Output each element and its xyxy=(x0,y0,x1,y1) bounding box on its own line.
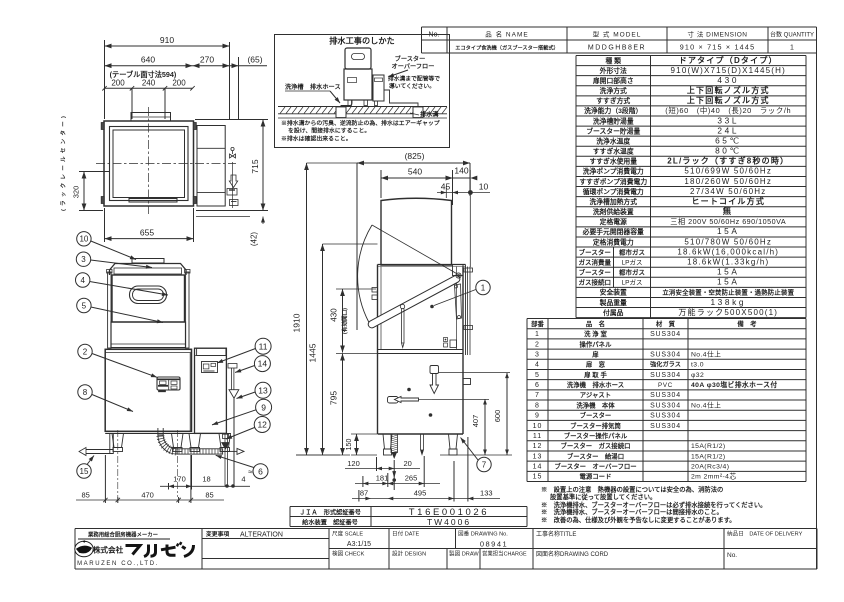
svg-text:定格電源: 定格電源 xyxy=(600,217,627,226)
svg-text:7: 7 xyxy=(535,392,540,399)
svg-text:を設け、間接排水にすること。: を設け、間接排水にすること。 xyxy=(288,127,370,135)
svg-text:電源コード: 電源コード xyxy=(580,472,612,481)
dim 120 20 xyxy=(345,457,420,490)
svg-text:18.6kW(1.33kg/h): 18.6kW(1.33kg/h) xyxy=(687,257,769,266)
svg-text:検図 CHECK: 検図 CHECK xyxy=(332,550,365,558)
plan view outline xyxy=(104,121,194,206)
side view spindle rod xyxy=(402,309,405,348)
svg-text:715: 715 xyxy=(250,159,260,173)
svg-text:扉 取 手: 扉 取 手 xyxy=(584,370,607,379)
svg-text:寸 法 DIMENSION: 寸 法 DIMENSION xyxy=(688,30,748,39)
svg-text:導いてください。: 導いてください。 xyxy=(389,82,435,90)
balloon 10 xyxy=(77,232,136,260)
svg-text:SUS304: SUS304 xyxy=(650,392,681,399)
svg-text:120: 120 xyxy=(347,459,360,468)
JIA certification number box xyxy=(290,507,527,528)
svg-text:15A(R1/2): 15A(R1/2) xyxy=(691,453,726,460)
svg-text:外形寸法: 外形寸法 xyxy=(600,66,627,75)
side view rear duct xyxy=(463,267,473,385)
svg-text:270: 270 xyxy=(200,55,214,65)
svg-text:万能ラック500X500(1): 万能ラック500X500(1) xyxy=(678,307,778,317)
svg-text:(短)60 (中)40 (長)20 ラック/h: (短)60 (中)40 (長)20 ラック/h xyxy=(665,106,791,115)
svg-text:540: 540 xyxy=(408,167,422,177)
drain box floor hatch xyxy=(278,107,447,119)
svg-text:すすぎポンプ消費電力: すすぎポンプ消費電力 xyxy=(579,177,647,186)
plan view corner hinges xyxy=(101,123,196,204)
svg-text:MDDGHB8ER: MDDGHB8ER xyxy=(588,45,646,52)
svg-text:洗浄機 排水ホース: 洗浄機 排水ホース xyxy=(567,380,624,389)
svg-text:33L: 33L xyxy=(717,115,739,125)
front view drain hose corrugated xyxy=(177,448,244,454)
balloon 14 xyxy=(235,356,270,373)
svg-text:洗浄槽: 洗浄槽 xyxy=(285,83,304,91)
drain box mini dishwasher xyxy=(344,48,384,106)
maker logo Maruzen xyxy=(75,531,194,568)
svg-text:ガス接続口: ガス接続口 xyxy=(579,278,612,287)
svg-text:扉: 扉 xyxy=(592,349,599,358)
svg-text:15A: 15A xyxy=(717,226,740,236)
front view body xyxy=(105,349,226,433)
dim 600 xyxy=(296,373,512,455)
svg-text:No.4仕上: No.4仕上 xyxy=(691,349,721,358)
dim 715 xyxy=(195,120,268,211)
svg-text:付属品: 付属品 xyxy=(603,308,624,317)
svg-text:4: 4 xyxy=(241,475,245,484)
front view hood xyxy=(110,264,187,323)
plan view centerlines xyxy=(96,163,236,165)
svg-text:407: 407 xyxy=(471,415,480,428)
dim 87 495 133 xyxy=(352,437,500,502)
svg-text:尺度 SCALE: 尺度 SCALE xyxy=(332,530,363,538)
svg-text:種 類: 種 類 xyxy=(606,56,622,65)
dim 540 140 xyxy=(381,166,477,268)
svg-text:ブースター 給湯口: ブースター 給湯口 xyxy=(567,451,624,460)
side view pivot block xyxy=(453,265,464,320)
svg-text:無: 無 xyxy=(723,206,734,216)
svg-text:TW4006: TW4006 xyxy=(427,517,471,527)
svg-text:1: 1 xyxy=(535,331,540,338)
svg-text:15A(R1/2): 15A(R1/2) xyxy=(691,443,726,450)
front view booster panel xyxy=(202,362,218,373)
side view marker dots xyxy=(407,388,411,392)
svg-text:150: 150 xyxy=(346,439,353,451)
svg-text:10: 10 xyxy=(79,235,88,244)
front view booster xyxy=(195,348,227,433)
svg-text:2m 2mm²-4芯: 2m 2mm²-4芯 xyxy=(691,472,737,481)
svg-text:洗浄能力（3段階）: 洗浄能力（3段階） xyxy=(584,106,642,115)
svg-text:製品重量: 製品重量 xyxy=(599,298,627,307)
svg-text:85: 85 xyxy=(82,491,90,500)
balloon 5 xyxy=(77,298,163,323)
balloon 12 xyxy=(226,417,270,440)
svg-text:(42): (42) xyxy=(250,232,259,247)
dim 430 opening xyxy=(330,289,377,353)
drain box labels xyxy=(285,55,440,119)
svg-text:ブースター: ブースター xyxy=(579,247,611,256)
dim (825) xyxy=(357,151,470,330)
front view centerlines xyxy=(117,430,119,497)
svg-text:図面名称DRAWING CORD: 図面名称DRAWING CORD xyxy=(536,550,609,558)
svg-text:65℃: 65℃ xyxy=(715,135,741,145)
svg-text:510/780W 50/60Hz: 510/780W 50/60Hz xyxy=(684,237,772,246)
svg-text:台数 QUANTITY: 台数 QUANTITY xyxy=(770,31,814,39)
svg-text:t3.0: t3.0 xyxy=(691,362,704,369)
dim 655 xyxy=(105,208,194,242)
svg-text:洗浄槽貯湯量: 洗浄槽貯湯量 xyxy=(593,116,634,125)
plan view right attachment xyxy=(197,126,225,207)
svg-text:87: 87 xyxy=(360,489,368,498)
balloon 6 xyxy=(216,455,268,479)
balloon 8 xyxy=(78,385,133,412)
svg-text:排水溝まで配管等で: 排水溝まで配管等で xyxy=(388,75,440,83)
svg-text:12: 12 xyxy=(533,443,543,450)
balloon 1 xyxy=(434,280,490,305)
svg-text:ブースター: ブースター xyxy=(580,411,612,420)
svg-text:133: 133 xyxy=(480,489,493,498)
svg-text:品 名 NAME: 品 名 NAME xyxy=(485,30,528,39)
svg-text:1445: 1445 xyxy=(308,343,318,362)
svg-text:10: 10 xyxy=(479,182,489,192)
svg-text:洗浄槽加熱方式: 洗浄槽加熱方式 xyxy=(589,197,637,206)
svg-text:LPガス: LPガス xyxy=(622,257,643,266)
svg-text:株式会社: 株式会社 xyxy=(93,545,124,555)
svg-text:PVC: PVC xyxy=(658,382,673,389)
svg-text:給水装置 認証番号: 給水装置 認証番号 xyxy=(302,518,358,526)
side view open door bar xyxy=(367,273,461,329)
svg-text:240: 240 xyxy=(142,79,156,88)
svg-text:5: 5 xyxy=(535,372,540,379)
svg-text:三相 200V 50/60Hz 690/1050VA: 三相 200V 50/60Hz 690/1050VA xyxy=(670,217,786,226)
svg-text:※ 設置上の注意 熱機器の設置については安全の為、消防法の: ※ 設置上の注意 熱機器の設置については安全の為、消防法の xyxy=(541,485,723,494)
svg-text:すすぎ水温度: すすぎ水温度 xyxy=(593,147,634,156)
svg-text:5: 5 xyxy=(82,301,87,310)
dim (42) xyxy=(196,217,265,247)
svg-text:品 名: 品 名 xyxy=(586,319,605,328)
svg-text:設置基準に従って設置してください。: 設置基準に従って設置してください。 xyxy=(550,492,656,501)
svg-text:洗浄方式: 洗浄方式 xyxy=(600,86,627,95)
svg-text:910(W)X715(D)X1445(H): 910(W)X715(D)X1445(H) xyxy=(671,66,786,75)
svg-text:200: 200 xyxy=(111,79,125,88)
svg-text:排水工事のしかた: 排水工事のしかた xyxy=(329,36,395,46)
svg-text:φ32: φ32 xyxy=(691,372,704,379)
svg-text:430: 430 xyxy=(330,308,339,322)
svg-text:9: 9 xyxy=(261,402,266,412)
svg-text:洗浄機 本体: 洗浄機 本体 xyxy=(576,400,615,409)
svg-text:(ラックレールセンター): (ラックレールセンター) xyxy=(59,113,67,211)
svg-text:910: 910 xyxy=(160,35,174,45)
plan view rack rail top xyxy=(131,113,171,122)
front view dim 170 18 4 xyxy=(160,455,250,490)
dim 200 240 200 xyxy=(102,79,194,120)
svg-text:扉 窓: 扉 窓 xyxy=(586,360,606,369)
svg-text:13: 13 xyxy=(533,453,543,460)
svg-text:ＪＩＡ 形式認証番号: ＪＩＡ 形式認証番号 xyxy=(299,508,361,516)
svg-text:MARUZEN CO.,LTD.: MARUZEN CO.,LTD. xyxy=(77,561,159,567)
svg-text:ブースター: ブースター xyxy=(395,55,426,63)
svg-text:40A φ30塩ビ排水ホース付: 40A φ30塩ビ排水ホース付 xyxy=(691,380,778,389)
svg-text:ガス消費量: ガス消費量 xyxy=(579,257,612,266)
svg-text:24L: 24L xyxy=(717,125,739,135)
svg-text:2: 2 xyxy=(83,347,88,356)
svg-text:循環ポンプ消費電力: 循環ポンプ消費電力 xyxy=(583,187,644,196)
drain box notes xyxy=(281,119,440,143)
svg-text:日付 DATE: 日付 DATE xyxy=(392,530,420,538)
dim 640 270 (65) xyxy=(105,55,268,120)
plan view side fittings xyxy=(227,147,238,208)
dim 910 xyxy=(105,35,230,119)
svg-text:都市ガス: 都市ガス xyxy=(618,268,645,277)
side view open door arc xyxy=(358,225,372,323)
svg-text:製図 DRAW: 製図 DRAW xyxy=(449,550,479,558)
svg-text:LPガス: LPガス xyxy=(622,278,643,287)
svg-text:※ 改善の為、仕様及び外観を予告なしに変更することがあります: ※ 改善の為、仕様及び外観を予告なしに変更することがあります。 xyxy=(541,515,736,524)
svg-text:上下回転ノズル方式: 上下回転ノズル方式 xyxy=(687,85,770,95)
svg-text:320: 320 xyxy=(72,186,81,199)
svg-text:ブースター排気筒: ブースター排気筒 xyxy=(570,421,621,430)
side view legs xyxy=(383,434,458,455)
front view drain fitting xyxy=(222,434,235,488)
svg-text:SUS304: SUS304 xyxy=(650,402,681,409)
drain work instruction box xyxy=(275,35,450,148)
svg-text:ブースター オーバーフロー: ブースター オーバーフロー xyxy=(554,462,636,471)
title block frame xyxy=(75,529,817,570)
dim 181 265 xyxy=(355,456,440,487)
svg-text:SUS304: SUS304 xyxy=(650,413,681,420)
svg-text:図番 DRAWING No.: 図番 DRAWING No. xyxy=(458,531,508,538)
svg-text:14: 14 xyxy=(533,464,543,471)
svg-text:15A: 15A xyxy=(717,267,740,277)
svg-text:2: 2 xyxy=(535,341,540,348)
svg-text:ヒートコイル方式: ヒートコイル方式 xyxy=(691,196,765,206)
svg-text:ALTERATION: ALTERATION xyxy=(240,532,283,539)
svg-text:640: 640 xyxy=(141,55,155,65)
svg-text:470: 470 xyxy=(141,491,154,500)
svg-text:強化ガラス: 強化ガラス xyxy=(650,361,681,369)
svg-text:SUS304: SUS304 xyxy=(650,351,681,358)
side view chamber ceiling xyxy=(378,264,466,266)
dim 45 10 xyxy=(437,182,490,199)
svg-text:1: 1 xyxy=(790,45,794,52)
svg-text:洗 浄 室: 洗 浄 室 xyxy=(584,329,607,338)
svg-text:14: 14 xyxy=(258,359,268,369)
svg-text:13: 13 xyxy=(258,385,268,395)
svg-text:安全装置: 安全装置 xyxy=(600,288,627,297)
svg-text:営業担当CHARGE: 営業担当CHARGE xyxy=(482,550,527,558)
front view drain hose elbow xyxy=(157,428,178,455)
parts list table xyxy=(527,319,806,482)
balloon 7 xyxy=(461,438,492,472)
svg-text:(65): (65) xyxy=(247,55,262,65)
title table (top right) xyxy=(422,27,817,53)
svg-text:アジャスト: アジャスト xyxy=(580,391,611,399)
svg-text:設計 DESIGN: 設計 DESIGN xyxy=(392,550,426,558)
svg-text:180/260W 50/60Hz: 180/260W 50/60Hz xyxy=(684,177,772,186)
svg-text:600: 600 xyxy=(493,410,502,423)
svg-text:※ 洗浄機排水、ブースターオーバーフローは間接排水のこと。: ※ 洗浄機排水、ブースターオーバーフローは間接排水のこと。 xyxy=(541,507,723,516)
balloon 13 xyxy=(237,382,272,398)
svg-text:15A: 15A xyxy=(717,277,740,287)
svg-text:洗浄水温度: 洗浄水温度 xyxy=(596,136,630,145)
svg-text:20: 20 xyxy=(404,459,412,468)
front view dim 85 470 85 xyxy=(76,455,224,503)
svg-text:ドアタイプ（Dタイプ）: ドアタイプ（Dタイプ） xyxy=(679,55,778,65)
svg-text:200: 200 xyxy=(172,79,186,88)
svg-text:45: 45 xyxy=(441,182,451,192)
svg-text:2L/ラック（すすぎ8秒の時）: 2L/ラック（すすぎ8秒の時） xyxy=(667,156,789,166)
svg-text:85: 85 xyxy=(205,491,213,500)
svg-text:ブースター: ブースター xyxy=(579,268,611,277)
side view water inlet arrow xyxy=(388,397,433,404)
front view water inlet pipe xyxy=(79,434,113,456)
svg-text:795: 795 xyxy=(329,391,339,405)
front view booster overflow piping xyxy=(228,364,239,487)
svg-text:変更事項: 変更事項 xyxy=(206,530,229,538)
svg-text:8: 8 xyxy=(535,402,540,409)
svg-text:265: 265 xyxy=(405,474,418,483)
sheet right border xyxy=(816,27,818,569)
svg-text:9: 9 xyxy=(535,413,540,420)
svg-text:No.: No. xyxy=(727,552,737,559)
svg-text:8: 8 xyxy=(83,388,88,397)
drain box pipes xyxy=(341,90,418,107)
svg-text:業務用総合厨房機器メーカー: 業務用総合厨房機器メーカー xyxy=(87,531,158,539)
svg-text:上下回転ノズル方式: 上下回転ノズル方式 xyxy=(687,95,770,105)
svg-text:A3:1/15: A3:1/15 xyxy=(347,541,371,548)
svg-text:11: 11 xyxy=(259,341,268,351)
side view gas down arrow xyxy=(430,366,439,394)
balloon 15 xyxy=(77,456,94,479)
svg-text:3: 3 xyxy=(81,255,86,264)
svg-text:6: 6 xyxy=(535,382,540,389)
svg-text:すすぎ方式: すすぎ方式 xyxy=(596,96,630,105)
svg-text:≈: ≈ xyxy=(248,468,253,477)
svg-text:430: 430 xyxy=(717,75,739,85)
svg-text:11: 11 xyxy=(533,433,542,440)
svg-text:排水溝: 排水溝 xyxy=(420,111,439,119)
svg-text:SUS304: SUS304 xyxy=(650,331,681,338)
svg-text:SUS304: SUS304 xyxy=(650,423,681,430)
svg-text:部番: 部番 xyxy=(531,319,544,328)
svg-text:すすぎ水使用量: すすぎ水使用量 xyxy=(589,157,637,166)
dim 795 xyxy=(329,354,378,456)
side view center drain pipe xyxy=(421,434,424,455)
side view body xyxy=(378,265,466,435)
svg-text:18.6kW(16,000kcal/h): 18.6kW(16,000kcal/h) xyxy=(677,247,779,256)
front view lift posts xyxy=(107,270,190,349)
svg-text:1: 1 xyxy=(481,283,486,292)
dim 150 xyxy=(346,434,377,455)
svg-text:12: 12 xyxy=(257,420,267,430)
dim 407 xyxy=(432,399,489,455)
svg-text:(有効開口): (有効開口) xyxy=(341,308,349,334)
svg-text:洗剤供給装置: 洗剤供給装置 xyxy=(593,207,634,216)
svg-text:18: 18 xyxy=(202,475,210,484)
svg-text:オーバーフロー: オーバーフロー xyxy=(392,63,435,71)
svg-text:510/699W 50/60Hz: 510/699W 50/60Hz xyxy=(684,167,772,176)
side view hood tower xyxy=(381,198,452,265)
side view gas hose hatched xyxy=(391,434,398,458)
svg-text:立消安全装置・空焚防止装置・過熱防止装置: 立消安全装置・空焚防止装置・過熱防止装置 xyxy=(662,288,794,297)
side view door switch parts xyxy=(444,338,457,348)
front view chamber section xyxy=(111,322,186,348)
balloon 3 xyxy=(76,252,152,269)
svg-text:定格消費電力: 定格消費電力 xyxy=(593,237,634,246)
svg-text:6: 6 xyxy=(258,466,263,476)
svg-text:15: 15 xyxy=(533,474,543,481)
svg-text:138kg: 138kg xyxy=(710,297,746,307)
svg-text:洗浄ポンプ消費電力: 洗浄ポンプ消費電力 xyxy=(583,167,644,176)
svg-text:納品日 DATE OF DELIVERY: 納品日 DATE OF DELIVERY xyxy=(727,530,803,538)
dim 320 xyxy=(72,172,111,211)
svg-text:3: 3 xyxy=(535,351,540,358)
front view door handle xyxy=(130,286,167,304)
svg-text:4: 4 xyxy=(80,276,85,285)
title block labels xyxy=(206,530,803,560)
svg-text:08941: 08941 xyxy=(480,540,508,549)
svg-text:7: 7 xyxy=(482,460,487,469)
svg-text:材 質: 材 質 xyxy=(656,319,676,328)
svg-text:4: 4 xyxy=(535,362,540,369)
svg-text:型 式 MODEL: 型 式 MODEL xyxy=(593,30,642,39)
front view rack rail xyxy=(132,259,164,264)
balloon 9 xyxy=(212,399,272,425)
front view legs xyxy=(112,434,231,452)
side view door radius line xyxy=(372,225,457,274)
svg-text:1910: 1910 xyxy=(292,313,302,332)
dim 1910 xyxy=(292,163,358,455)
svg-text:655: 655 xyxy=(140,228,154,238)
balloon 2 xyxy=(78,344,157,377)
balloon 4 xyxy=(76,273,169,296)
svg-text:操作パネル: 操作パネル xyxy=(580,339,613,348)
svg-text:910 × 715 × 1445: 910 × 715 × 1445 xyxy=(680,43,756,52)
svg-text:エコタイプ食洗機（ガスブースター搭載式）: エコタイプ食洗機（ガスブースター搭載式） xyxy=(455,44,559,52)
svg-text:(825): (825) xyxy=(405,151,425,161)
svg-text:ブースター操作パネル: ブースター操作パネル xyxy=(564,431,628,440)
svg-text:27/34W 50/60Hz: 27/34W 50/60Hz xyxy=(690,187,766,196)
svg-text:181: 181 xyxy=(376,474,389,483)
svg-text:140: 140 xyxy=(454,166,468,176)
svg-text:扉開口部高さ: 扉開口部高さ xyxy=(593,76,634,85)
specification table (right) xyxy=(576,55,806,318)
svg-text:※排水溝からの汚臭、逆流防止の為、排水はエアーギャップ: ※排水溝からの汚臭、逆流防止の為、排水はエアーギャップ xyxy=(281,119,440,127)
svg-text:工事名称TITLE: 工事名称TITLE xyxy=(536,530,576,538)
svg-text:排水ホース: 排水ホース xyxy=(310,83,341,91)
dim 1445 xyxy=(308,244,378,455)
balloon 11 xyxy=(217,338,271,363)
svg-text:80℃: 80℃ xyxy=(715,146,741,156)
svg-text:15: 15 xyxy=(80,467,89,476)
installation notes xyxy=(541,485,766,525)
svg-text:ブースター ガス接続口: ブースター ガス接続口 xyxy=(561,441,631,450)
svg-text:No.4仕上: No.4仕上 xyxy=(691,400,721,409)
svg-text:20A(Rc3/4): 20A(Rc3/4) xyxy=(691,464,729,471)
svg-text:495: 495 xyxy=(414,489,427,498)
svg-text:ブースター貯湯量: ブースター貯湯量 xyxy=(586,126,640,135)
svg-text:※排水は確認出来ること。: ※排水は確認出来ること。 xyxy=(281,135,352,143)
svg-text:必要手元開閉器容量: 必要手元開閉器容量 xyxy=(582,227,644,236)
svg-text:備 考: 備 考 xyxy=(737,319,757,328)
side view rack rails protruding xyxy=(372,288,378,300)
svg-text:都市ガス: 都市ガス xyxy=(618,247,645,256)
svg-text:※ 洗浄機排水、ブースターオーバーフローは必ず排水接続を行っ: ※ 洗浄機排水、ブースターオーバーフローは必ず排水接続を行ってください。 xyxy=(541,500,766,509)
svg-text:SUS304: SUS304 xyxy=(650,372,681,379)
svg-text:170: 170 xyxy=(173,475,186,484)
svg-text:10: 10 xyxy=(533,423,543,430)
front view control panel xyxy=(157,377,180,392)
